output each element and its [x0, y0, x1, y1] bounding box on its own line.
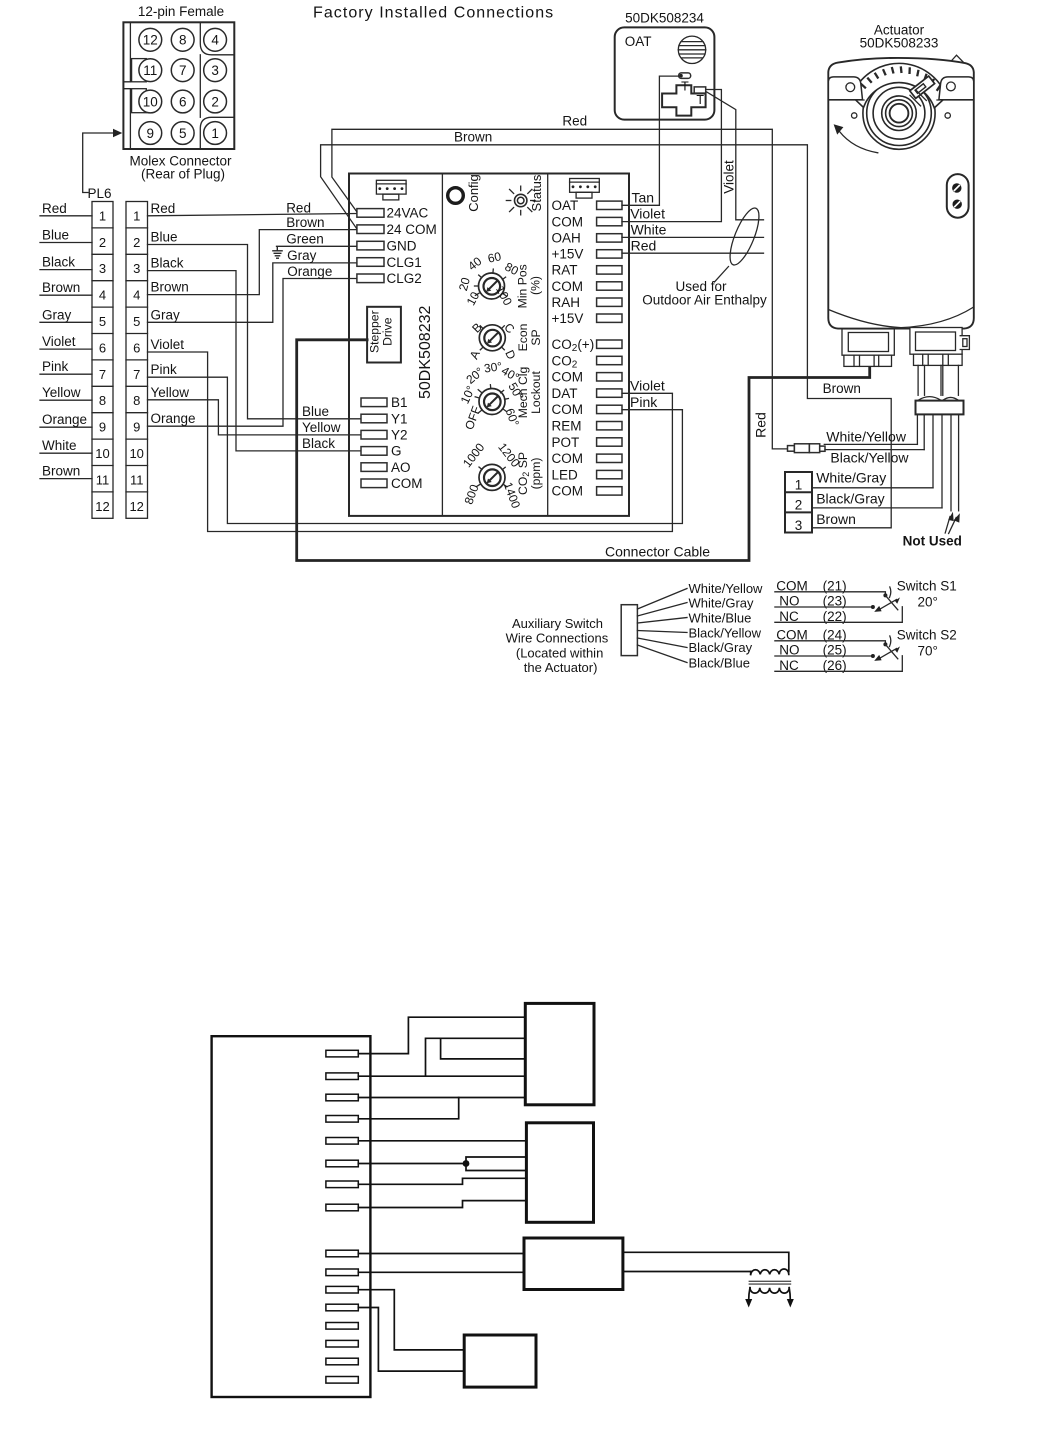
secondary lead left — [749, 1288, 750, 1300]
svg-text:3: 3 — [99, 261, 106, 276]
controller section divider 2 — [547, 174, 549, 516]
actuator right foot connector — [910, 328, 970, 366]
not used arrows — [945, 517, 950, 534]
svg-text:Blue: Blue — [42, 228, 69, 243]
secondary lead right — [789, 1288, 790, 1300]
wire pad11 to box4 — [358, 1290, 464, 1350]
left wing plate — [828, 77, 862, 100]
svg-text:Black/Yellow: Black/Yellow — [689, 625, 762, 640]
svg-text:Brown: Brown — [42, 280, 80, 295]
PL6 pin numbers column 2 — [129, 208, 143, 513]
svg-text:Red: Red — [562, 113, 587, 128]
wire pad12 to box4 — [358, 1308, 464, 1372]
svg-text:12: 12 — [95, 499, 109, 514]
wire blue pin2 left — [40, 242, 92, 244]
wire black/gray to terminal 2 — [812, 507, 942, 509]
ground symbol on green wire — [272, 246, 283, 258]
status LED icon — [506, 186, 536, 216]
lead black/yellow — [923, 414, 925, 449]
svg-text:T: T — [681, 80, 689, 94]
svg-text:RAH: RAH — [552, 295, 581, 310]
wire pad2 to box1 — [358, 1075, 525, 1077]
svg-text:Min Pos: Min Pos — [516, 264, 530, 308]
svg-text:COM: COM — [552, 279, 584, 294]
aux switch connector bar — [621, 605, 637, 656]
svg-text:4: 4 — [133, 288, 140, 303]
wire violet COM to sensor T — [622, 90, 721, 222]
svg-text:Blue: Blue — [151, 230, 178, 245]
rotation arrow — [840, 132, 878, 153]
lead not used 2 — [958, 414, 960, 510]
svg-text:Switch S2: Switch S2 — [897, 628, 957, 643]
wire green GND — [277, 245, 357, 247]
leader to Used for text — [715, 267, 729, 283]
actuator U2 body — [828, 55, 974, 328]
hub concentric circles — [863, 77, 935, 149]
wire orange pin9 to CLG2 — [148, 279, 357, 427]
svg-text:Econ: Econ — [516, 324, 530, 352]
svg-text:8: 8 — [99, 393, 106, 408]
svg-text:Status: Status — [529, 174, 544, 211]
wire violet DAT stub — [622, 392, 672, 394]
svg-text:12-pin Female: 12-pin Female — [138, 4, 224, 19]
aux wire name labels — [689, 581, 764, 671]
wire pink pin7 left — [40, 373, 92, 375]
svg-text:24VAC: 24VAC — [387, 206, 429, 221]
svg-text:LED: LED — [552, 467, 579, 482]
svg-text:COM: COM — [552, 214, 584, 229]
svg-text:T: T — [696, 93, 704, 107]
svg-text:10: 10 — [95, 446, 109, 461]
svg-text:2: 2 — [795, 498, 803, 513]
svg-text:6: 6 — [179, 94, 187, 109]
wire pad6 to junction — [358, 1163, 466, 1165]
lead white/yellow — [916, 414, 918, 444]
svg-text:Black/Blue: Black/Blue — [689, 655, 750, 670]
svg-text:(22): (22) — [823, 609, 847, 624]
svg-text:1: 1 — [99, 208, 106, 223]
svg-text:5: 5 — [99, 314, 106, 329]
svg-text:Black: Black — [302, 436, 335, 451]
svg-text:PL6: PL6 — [88, 186, 112, 201]
switch S1 wiring — [775, 592, 902, 623]
inner hub rings — [882, 96, 917, 131]
mid-run wire color labels near controller — [286, 200, 341, 451]
svg-text:Blue: Blue — [302, 404, 329, 419]
sensor wire labels — [630, 190, 666, 254]
svg-text:COM: COM — [776, 627, 808, 642]
svg-text:Black/Gray: Black/Gray — [816, 490, 884, 506]
junction dot — [463, 1160, 470, 1167]
svg-text:24 COM: 24 COM — [387, 222, 437, 237]
position clamp arm — [910, 76, 935, 98]
svg-text:Red: Red — [286, 200, 311, 215]
wire pad9 to box3 — [358, 1253, 524, 1255]
svg-text:5: 5 — [179, 126, 187, 141]
Molex connector J1 outer body — [123, 22, 234, 149]
svg-text:Switch S1: Switch S1 — [897, 579, 957, 594]
junction fork upper — [466, 1157, 526, 1164]
wire red pin1 left — [40, 215, 92, 217]
wire gray pin5 to CLG1 — [148, 263, 357, 322]
gear band — [852, 63, 947, 108]
wing screw holes — [846, 83, 855, 92]
wire orange pin9 left — [40, 426, 92, 428]
dial Econ SP — [467, 320, 519, 362]
svg-text:Tan: Tan — [632, 190, 655, 206]
Molex key box pin 4 — [200, 22, 234, 55]
svg-text:1: 1 — [133, 208, 140, 223]
svg-text:B1: B1 — [391, 395, 408, 410]
screw plate stadium — [947, 174, 969, 218]
svg-text:Brown: Brown — [151, 280, 189, 295]
svg-text:COM: COM — [552, 451, 584, 466]
svg-text:Outdoor Air Enthalpy: Outdoor Air Enthalpy — [642, 293, 767, 308]
bottom seam curve — [828, 307, 973, 328]
primary winding — [751, 1269, 789, 1274]
svg-text:9: 9 — [133, 420, 140, 435]
Molex pin circles with numbers — [139, 28, 227, 144]
dial Min Pos — [456, 249, 521, 308]
svg-text:CLG2: CLG2 — [387, 271, 422, 286]
wire gray pin5 left — [40, 321, 92, 323]
wire red +15V — [622, 252, 764, 254]
svg-text:Black: Black — [151, 256, 184, 271]
svg-text:NO: NO — [779, 594, 799, 609]
svg-text:OAT: OAT — [552, 198, 579, 213]
lead not used 1 — [950, 414, 952, 510]
svg-text:Gray: Gray — [151, 307, 181, 322]
svg-text:Gray: Gray — [287, 248, 317, 263]
svg-text:Orange: Orange — [287, 264, 332, 279]
svg-text:3: 3 — [211, 63, 219, 78]
svg-text:20°: 20° — [918, 595, 938, 610]
svg-text:Pink: Pink — [630, 394, 658, 410]
left section power terminals — [357, 209, 384, 283]
svg-text:11: 11 — [143, 63, 157, 78]
4-pin plug icon left section — [376, 180, 406, 200]
svg-text:Factory Installed Connections: Factory Installed Connections — [313, 5, 554, 22]
svg-text:4: 4 — [99, 288, 106, 303]
sensor screw cap with stripes — [678, 36, 705, 63]
switch S2 contacts — [883, 642, 887, 646]
wire white pin10 left — [40, 452, 92, 454]
svg-text:10: 10 — [129, 446, 143, 461]
svg-text:OAT: OAT — [625, 34, 652, 49]
OAT sensor box — [615, 27, 715, 119]
svg-text:Config: Config — [466, 174, 481, 212]
PL6 leader arrow to Molex — [83, 133, 114, 193]
svg-text:NC: NC — [779, 658, 799, 673]
cable gland tubes — [918, 365, 958, 400]
connector PL6 pin column 1 — [92, 202, 113, 519]
svg-text:7: 7 — [99, 367, 106, 382]
wire brown 24COM to actuator top run — [321, 145, 892, 528]
wire box3 to transformer top — [623, 1252, 789, 1271]
svg-text:Drive: Drive — [381, 317, 395, 346]
svg-text:Y1: Y1 — [391, 411, 408, 426]
svg-text:(21): (21) — [823, 578, 847, 593]
config button — [448, 188, 464, 204]
module box 4 — [464, 1335, 536, 1387]
svg-text:Pink: Pink — [42, 359, 69, 374]
enthalpy cable bundle oval — [724, 205, 764, 269]
svg-text:Brown: Brown — [42, 464, 80, 479]
sensor terminal T2 — [694, 87, 706, 93]
svg-text:Wire Connections: Wire Connections — [506, 631, 609, 646]
gear teeth — [856, 66, 941, 94]
svg-text:Brown: Brown — [816, 511, 856, 527]
svg-text:COM: COM — [552, 402, 584, 417]
transformer T1 — [749, 1269, 791, 1300]
svg-text:(ppm): (ppm) — [529, 458, 543, 490]
right wing plate — [939, 77, 974, 100]
svg-text:5: 5 — [133, 314, 140, 329]
wire from splice to actuator lead — [825, 449, 924, 451]
Molex key strip left top — [123, 22, 130, 82]
svg-text:Violet: Violet — [42, 334, 76, 349]
core lines — [749, 1280, 790, 1282]
Molex key strip left bottom — [123, 89, 130, 149]
svg-text:White/Blue: White/Blue — [689, 610, 752, 625]
svg-text:2: 2 — [99, 235, 106, 250]
svg-text:Orange: Orange — [151, 411, 196, 426]
svg-text:Yellow: Yellow — [42, 385, 81, 400]
inline splice connector on red lead — [788, 444, 826, 453]
aux contact labels — [776, 578, 846, 673]
svg-text:NO: NO — [779, 643, 799, 658]
Molex column divider — [199, 55, 201, 118]
svg-text:Green: Green — [286, 232, 324, 247]
svg-text:Red: Red — [42, 201, 67, 216]
svg-text:RAT: RAT — [552, 263, 578, 278]
PL6 pin numbers column 1 — [95, 208, 109, 513]
right-side cable labels at column 2 — [151, 201, 196, 426]
wire white/gray to terminal 1 — [812, 487, 933, 489]
svg-text:(Rear of Plug): (Rear of Plug) — [141, 167, 225, 182]
wire black pin3 left — [40, 269, 92, 271]
svg-text:6: 6 — [99, 340, 106, 355]
svg-text:9: 9 — [147, 126, 155, 141]
seam line below wings — [828, 99, 864, 101]
wire red pin1 to 24VAC — [148, 214, 357, 216]
svg-text:Brown: Brown — [286, 215, 324, 230]
controller box 50DK508232 outline — [349, 174, 629, 516]
svg-text:Violet: Violet — [151, 337, 185, 352]
wire brown pin4 left — [40, 294, 92, 296]
wire yellow pin8 left — [40, 399, 92, 401]
module box 2 — [526, 1123, 593, 1223]
svg-text:(24): (24) — [823, 627, 847, 642]
svg-text:Lockout: Lockout — [529, 371, 543, 414]
svg-text:7: 7 — [133, 367, 140, 382]
wire pad8 to box2 — [358, 1201, 526, 1208]
wire brown pin11 left — [40, 478, 92, 480]
wire black pin3 to G — [148, 271, 362, 451]
switch S1 contacts — [883, 593, 887, 597]
controller section divider 1 — [441, 174, 443, 516]
svg-text:3: 3 — [795, 518, 803, 533]
Molex key box pin 10 — [132, 89, 147, 113]
svg-text:11: 11 — [96, 472, 110, 487]
svg-text:Black/Gray: Black/Gray — [689, 640, 753, 655]
svg-text:+15V: +15V — [552, 247, 584, 262]
svg-text:+15V: +15V — [552, 311, 584, 326]
svg-text:GND: GND — [387, 238, 417, 253]
wire yellow pin8 to Y2 — [148, 400, 362, 435]
left section signal terminals — [361, 398, 387, 488]
wire pad4 riser — [358, 1098, 458, 1119]
wire pad3 to box1 — [358, 1097, 525, 1099]
svg-text:12: 12 — [129, 499, 143, 514]
4-pin plug icon right section — [570, 179, 600, 199]
wire branch to box1 mid — [441, 1038, 526, 1059]
svg-text:Not Used: Not Used — [903, 534, 962, 549]
wire branch to box1 upper — [426, 1038, 526, 1076]
svg-text:Orange: Orange — [42, 412, 87, 427]
svg-text:50DK508232: 50DK508232 — [417, 305, 434, 399]
board terminal pads group 1 — [326, 1050, 358, 1210]
svg-text:Auxiliary Switch: Auxiliary Switch — [512, 616, 603, 631]
connector PL6 pin column 2 — [126, 202, 148, 519]
svg-text:Black: Black — [42, 255, 75, 270]
svg-text:Pink: Pink — [151, 362, 178, 377]
svg-text:Yellow: Yellow — [151, 385, 190, 400]
Molex key box pin 11 — [132, 59, 147, 82]
svg-text:Connector Cable: Connector Cable — [605, 543, 710, 559]
svg-text:DAT: DAT — [552, 386, 578, 401]
wire violet pin6 to DAT — [148, 352, 673, 532]
svg-text:COM: COM — [391, 476, 423, 491]
svg-text:11: 11 — [130, 472, 144, 487]
right section sensor terminals group A — [597, 201, 622, 322]
top ear triangle — [949, 55, 965, 64]
wire pad10 to box3 — [358, 1271, 524, 1273]
svg-text:Red: Red — [753, 412, 769, 438]
svg-text:3: 3 — [133, 261, 140, 276]
auxiliary switch note text — [506, 616, 609, 675]
svg-text:Violet: Violet — [630, 378, 665, 394]
dial CO2 SP — [460, 440, 523, 510]
svg-text:White: White — [42, 438, 77, 453]
wire pad7 to box2 — [358, 1178, 526, 1184]
svg-text:9: 9 — [99, 420, 106, 435]
svg-text:Violet: Violet — [721, 160, 736, 194]
wire tan OAT to sensor — [622, 76, 679, 205]
wire pad5 to box2 — [358, 1140, 526, 1142]
svg-text:Black/Yellow: Black/Yellow — [830, 449, 909, 465]
svg-text:Mech Clg: Mech Clg — [516, 367, 530, 418]
svg-text:70°: 70° — [918, 644, 938, 659]
svg-text:REM: REM — [552, 419, 582, 434]
wire violet pin6 left — [40, 348, 92, 350]
svg-text:4: 4 — [211, 33, 219, 48]
svg-text:COM: COM — [776, 578, 808, 593]
svg-text:8: 8 — [179, 33, 187, 48]
svg-text:12: 12 — [143, 33, 158, 48]
wire box3 to transformer bottom — [623, 1271, 751, 1273]
aux leader lines — [637, 589, 687, 663]
svg-text:White/Yellow: White/Yellow — [689, 581, 764, 596]
svg-text:(25): (25) — [823, 643, 847, 658]
wire white OAH — [622, 236, 764, 238]
lead black/gray — [941, 414, 943, 508]
wire blue pin2 to Y1 — [148, 245, 362, 419]
svg-text:OAH: OAH — [552, 231, 581, 246]
svg-text:POT: POT — [552, 435, 580, 450]
svg-text:50DK508234: 50DK508234 — [625, 11, 704, 26]
svg-text:G: G — [391, 444, 402, 459]
wire red 24VAC to actuator top run — [332, 129, 788, 449]
switch S2 wiring — [775, 641, 902, 672]
junction fork lower — [466, 1164, 526, 1171]
svg-text:Red: Red — [631, 237, 657, 253]
actuator left foot connector — [842, 329, 894, 367]
svg-text:Gray: Gray — [42, 307, 72, 322]
svg-text:Yellow: Yellow — [302, 420, 341, 435]
module box 1 — [525, 1003, 594, 1104]
svg-text:(Located within: (Located within — [516, 645, 603, 660]
thick connector cable: stepper drive to actuator plug — [297, 340, 870, 561]
body outline — [828, 58, 974, 329]
left harness wire labels and stubs into column 1 — [42, 201, 87, 479]
svg-text:the Actuator): the Actuator) — [524, 660, 598, 675]
wire brown pin4 to 24 COM — [148, 230, 357, 295]
svg-text:Violet: Violet — [630, 206, 665, 222]
svg-text:10: 10 — [143, 94, 158, 109]
wire pink COM stub — [622, 409, 682, 411]
svg-text:COM: COM — [552, 484, 584, 499]
right section sensor terminals group B — [597, 340, 622, 495]
svg-text:(26): (26) — [823, 658, 847, 673]
board terminal pads group 2 — [326, 1250, 358, 1383]
svg-text:White/Gray: White/Gray — [689, 596, 755, 611]
svg-text:2: 2 — [133, 235, 140, 250]
svg-text:SP: SP — [529, 329, 543, 345]
lead white/gray — [932, 414, 934, 487]
wire pad1 to box1 — [358, 1017, 525, 1053]
svg-text:6: 6 — [133, 340, 140, 355]
svg-text:Brown: Brown — [823, 381, 861, 396]
secondary winding — [750, 1288, 789, 1293]
svg-text:Red: Red — [151, 201, 176, 216]
svg-text:AO: AO — [391, 460, 411, 475]
svg-text:(23): (23) — [823, 594, 847, 609]
svg-text:50DK508233: 50DK508233 — [860, 36, 939, 51]
svg-text:White/Yellow: White/Yellow — [826, 429, 907, 445]
svg-text:Stepper: Stepper — [368, 310, 382, 353]
svg-text:CLG1: CLG1 — [387, 255, 422, 270]
svg-text:White/Gray: White/Gray — [816, 470, 886, 486]
secondary arrowheads — [745, 1299, 752, 1308]
svg-text:NC: NC — [779, 609, 799, 624]
svg-text:COM: COM — [552, 370, 584, 385]
aux terminal block 1-2-3 — [785, 472, 812, 533]
actuator lead wires — [917, 414, 958, 510]
stepper drive box — [367, 307, 401, 363]
svg-text:1: 1 — [211, 126, 219, 141]
svg-text:8: 8 — [133, 393, 140, 408]
sensor terminal cross block — [662, 85, 706, 115]
svg-text:1: 1 — [795, 478, 803, 493]
svg-text:Brown: Brown — [454, 130, 492, 145]
cable gland collar — [916, 401, 964, 415]
svg-text:7: 7 — [179, 63, 187, 78]
sensor terminal T1 oval — [679, 73, 691, 79]
svg-text:(%): (%) — [529, 276, 543, 295]
wire pink pin7 to COM — [148, 377, 683, 523]
svg-text:White: White — [631, 222, 667, 238]
